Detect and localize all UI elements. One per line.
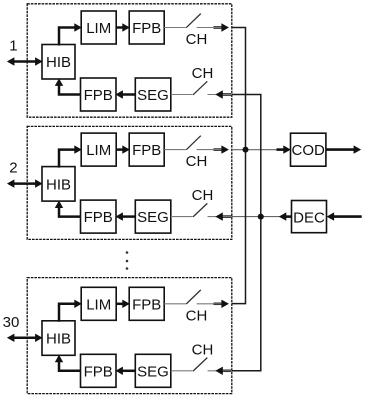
svg-text:1: 1	[9, 38, 17, 55]
svg-text:COD: COD	[292, 142, 326, 159]
svg-text:30: 30	[3, 314, 20, 331]
svg-text:DEC: DEC	[293, 209, 325, 226]
svg-text:2: 2	[9, 160, 17, 177]
